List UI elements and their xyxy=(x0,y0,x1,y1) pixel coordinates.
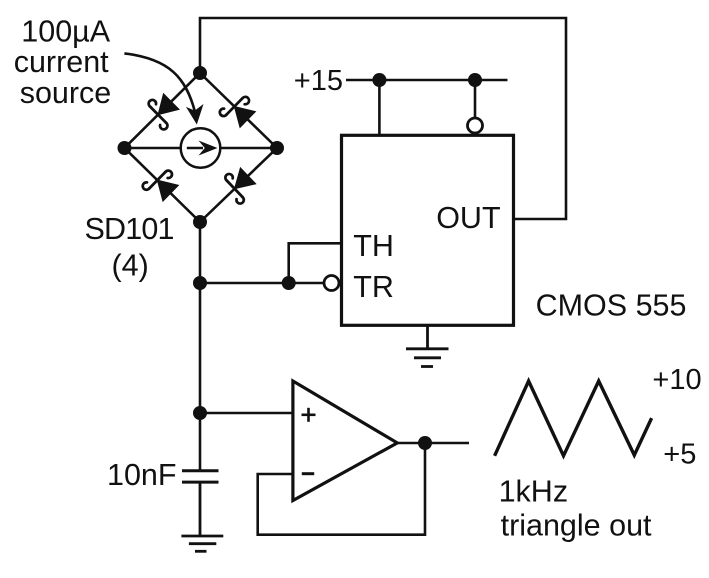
svg-text:TR: TR xyxy=(353,270,394,304)
svg-text:triangle out: triangle out xyxy=(501,509,652,543)
svg-text:source: source xyxy=(20,76,112,110)
svg-text:10nF: 10nF xyxy=(107,458,177,492)
svg-text:+15: +15 xyxy=(294,65,343,97)
svg-text:100µA: 100µA xyxy=(21,15,110,49)
svg-text:OUT: OUT xyxy=(436,201,500,235)
svg-text:+5: +5 xyxy=(663,438,696,470)
svg-text:1kHz: 1kHz xyxy=(499,474,568,508)
svg-text:+10: +10 xyxy=(652,364,701,396)
svg-text:current: current xyxy=(14,45,109,79)
svg-text:SD101: SD101 xyxy=(84,212,173,246)
svg-text:(4): (4) xyxy=(111,249,148,283)
svg-text:TH: TH xyxy=(353,229,394,263)
svg-text:CMOS 555: CMOS 555 xyxy=(536,288,687,322)
